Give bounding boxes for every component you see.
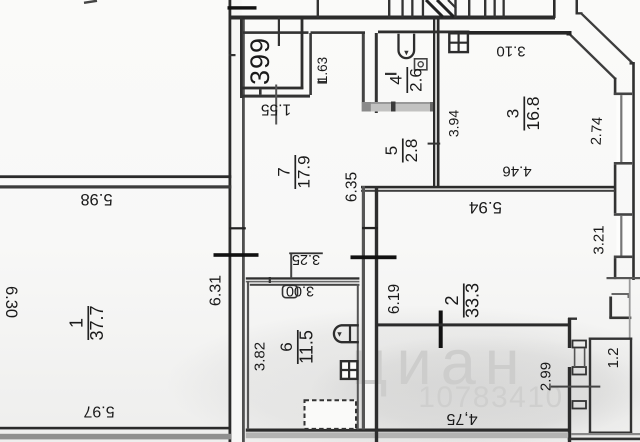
wall step y318 at x568 bbox=[568, 318, 577, 320]
399 box right edge line a bbox=[301, 19, 304, 89]
door frame line b bbox=[584, 348, 586, 367]
window W1 pane line bbox=[620, 95, 622, 162]
svg-text:6.19: 6.19 bbox=[386, 284, 403, 314]
door bold bar corridor-room2 bbox=[351, 255, 397, 259]
399 box vertical tick bbox=[278, 17, 280, 46]
room6 top wall inner bbox=[250, 284, 360, 286]
svg-text:6.35: 6.35 bbox=[344, 172, 361, 202]
svg-text:399: 399 bbox=[245, 37, 275, 85]
underline 3.25 bbox=[289, 252, 323, 254]
svg-text:4,75: 4,75 bbox=[446, 410, 477, 427]
room label 1/37.7 bbox=[67, 305, 108, 340]
room6 inner right wall bbox=[357, 284, 359, 429]
399 box left edge bbox=[240, 17, 243, 98]
room label 5/2.8 bbox=[382, 139, 421, 163]
wall right inner segment a bbox=[614, 78, 617, 96]
balcony 1.2 box left wall bbox=[589, 338, 591, 435]
tick on room6 wall bbox=[269, 277, 271, 283]
wall x568 upper bbox=[568, 318, 571, 348]
left divider wall top line bbox=[0, 175, 231, 178]
svg-text:7: 7 bbox=[275, 167, 294, 176]
dash 1.63 bbox=[318, 81, 328, 84]
balcony 1.2 box bottom wall bbox=[589, 432, 632, 434]
svg-text:3.10: 3.10 bbox=[496, 43, 525, 60]
svg-text:37.7: 37.7 bbox=[87, 305, 107, 340]
stair stub wall 3 bbox=[401, 0, 403, 18]
room6 inner left wall bbox=[247, 281, 249, 429]
wall right outer bbox=[632, 62, 635, 280]
svg-text:3.21: 3.21 bbox=[591, 225, 608, 254]
toilet room6 body bbox=[334, 325, 359, 342]
stair stub wall 10 bbox=[503, 0, 505, 18]
svg-text:3.94: 3.94 bbox=[446, 110, 462, 137]
stair stub wall 7 bbox=[468, 0, 470, 18]
corridor top line bbox=[311, 31, 366, 34]
toilet room6 tank line bbox=[349, 325, 351, 342]
stove icon cross h bbox=[341, 369, 358, 371]
chamfer low step bbox=[630, 62, 635, 64]
leader 2.99 bbox=[551, 386, 601, 388]
stair hatch stroke 1 bbox=[426, 0, 443, 17]
leader 3.25 bbox=[290, 253, 292, 278]
chamfer inner start block bbox=[567, 31, 572, 36]
wall left cavity line B bbox=[242, 17, 245, 442]
399 box bottom tick bbox=[259, 89, 262, 94]
stair stub wall 5 bbox=[422, 0, 424, 18]
window W2 bottom border bbox=[614, 256, 632, 259]
svg-text:4: 4 bbox=[387, 75, 406, 84]
svg-text:1.55: 1.55 bbox=[261, 101, 291, 118]
corridor wall x375 upper bbox=[375, 33, 378, 113]
balcony 1.2 box right wall bbox=[630, 338, 632, 435]
399 box bottom line a bbox=[240, 87, 303, 90]
stair stub wall 8 bbox=[484, 0, 486, 18]
dim tick mid cavity bbox=[362, 227, 378, 229]
gray wall band rooms 4-5 bbox=[362, 102, 435, 112]
svg-text:1.63: 1.63 bbox=[315, 57, 330, 83]
door jamb low step bbox=[573, 401, 587, 409]
wall x568 lower bbox=[568, 367, 571, 442]
neighbour line y277 bbox=[607, 277, 640, 279]
toilet room4 bowl bbox=[399, 34, 415, 58]
svg-text:2.6: 2.6 bbox=[407, 68, 426, 92]
svg-text:3.25: 3.25 bbox=[292, 251, 320, 267]
wall x433 line a bbox=[433, 19, 435, 188]
399 box bottom line b bbox=[240, 95, 310, 98]
svg-text:5.98: 5.98 bbox=[80, 190, 112, 208]
svg-text:6.31: 6.31 bbox=[208, 275, 225, 306]
svg-text:1.2: 1.2 bbox=[605, 348, 622, 369]
wall 5.94 line a bbox=[361, 186, 615, 189]
dim tick left cavity bbox=[229, 227, 246, 229]
bottom wall right section bbox=[246, 429, 568, 432]
window W1 bottom border bbox=[614, 162, 632, 165]
door bold bar room1-corridor bbox=[214, 253, 259, 257]
bottom strip right of 568 gray bbox=[571, 433, 640, 435]
bottom wall left section top line bbox=[0, 427, 231, 430]
stove icon room6 bbox=[341, 361, 358, 379]
stair stub wall 9 bbox=[494, 0, 496, 18]
corridor wall x375 lower bbox=[375, 186, 378, 442]
svg-text:2: 2 bbox=[442, 295, 462, 305]
svg-text:33.3: 33.3 bbox=[463, 283, 483, 318]
stair stub wall 2 bbox=[388, 0, 390, 18]
svg-text:6.30: 6.30 bbox=[2, 286, 20, 318]
gray wall band top edge bbox=[362, 102, 435, 104]
svg-text:5.94: 5.94 bbox=[469, 198, 502, 217]
wall y317 bbox=[609, 317, 631, 320]
wall stub x609 bbox=[609, 297, 612, 319]
svg-text:11.5: 11.5 bbox=[297, 330, 317, 364]
svg-text:16.8: 16.8 bbox=[523, 96, 543, 130]
neighbour tick x628 bbox=[628, 293, 630, 298]
tick below toilet bbox=[385, 73, 397, 75]
svg-text:6: 6 bbox=[277, 342, 296, 351]
vent shaft icon room3 bbox=[449, 33, 468, 52]
window W1 white fill bbox=[616, 93, 632, 166]
wall 5.94 line b bbox=[361, 190, 615, 192]
mini sink room4 bbox=[415, 59, 427, 70]
door bold bar vertical room2 bbox=[439, 311, 443, 349]
door jamb upper bbox=[573, 341, 587, 348]
door frame line a bbox=[574, 348, 576, 367]
room label 2/33.3 bbox=[442, 283, 483, 318]
stair stub wall 1 bbox=[317, 0, 319, 18]
wall right inner segment c bbox=[614, 258, 617, 279]
room2 bottom wall bbox=[377, 323, 569, 326]
wall top exterior bbox=[229, 16, 556, 20]
cavity wall white strip mid bbox=[365, 186, 375, 429]
dashed appliance rect room6 bbox=[305, 400, 357, 429]
svg-text:2.99: 2.99 bbox=[538, 362, 555, 391]
thin wall x629 bbox=[629, 279, 631, 338]
leader 1.55 bbox=[275, 85, 277, 125]
svg-text:5.97: 5.97 bbox=[83, 403, 114, 420]
cavity wall white strip left bbox=[232, 0, 242, 442]
wall x433 line b bbox=[437, 19, 440, 188]
stair stub wall 6 bbox=[454, 0, 456, 18]
window W1 top border bbox=[614, 93, 632, 96]
svg-text:2.8: 2.8 bbox=[402, 139, 421, 163]
toilet room6 dot bbox=[337, 332, 341, 337]
small tick left wall y55 bbox=[229, 54, 236, 56]
room4 top wall bbox=[378, 31, 470, 34]
room6 top wall middle bbox=[246, 281, 360, 283]
svg-text:3: 3 bbox=[504, 109, 523, 118]
door bold bar top entrance bbox=[228, 6, 257, 9]
window W2 top border bbox=[614, 213, 632, 216]
gray wall band left dark end bbox=[362, 102, 371, 112]
window W2 white fill bbox=[616, 213, 632, 255]
svg-text:4.46: 4.46 bbox=[502, 163, 531, 180]
top-left small mark bbox=[84, 1, 97, 3]
chamfer wall outer diagonal bbox=[581, 13, 634, 64]
stair hatch stroke 2 bbox=[437, 0, 454, 17]
corner step wall top right bbox=[576, 0, 579, 14]
wall left cavity line A bbox=[229, 0, 232, 442]
room3 top wall bbox=[455, 31, 570, 35]
vent shaft icon cross h bbox=[449, 42, 468, 44]
window W2 pane line bbox=[620, 216, 622, 256]
gray wall band dark blob bbox=[391, 102, 396, 112]
room label 6/11.5 bbox=[277, 330, 317, 364]
balcony 1.2 box top wall bbox=[589, 338, 632, 340]
svg-text:2.74: 2.74 bbox=[589, 117, 606, 146]
bottom wall left gray band bbox=[0, 434, 231, 440]
gray wall band right smudge bbox=[430, 102, 435, 112]
svg-text:5: 5 bbox=[382, 146, 401, 155]
399 box right edge line b bbox=[309, 33, 312, 95]
svg-text:17.9: 17.9 bbox=[295, 155, 314, 188]
toilet room4 dot bbox=[404, 51, 408, 56]
watermark gray zone bbox=[165, 305, 640, 442]
svg-text:3.82: 3.82 bbox=[252, 342, 269, 371]
vent shaft icon cross v bbox=[458, 33, 460, 52]
room label 4/2.6 bbox=[387, 67, 426, 93]
neighbour line y293 bbox=[612, 293, 630, 295]
wall right inner segment b bbox=[614, 165, 617, 214]
corridor wall x362 lower bbox=[362, 186, 365, 429]
bottom strip right dark line bbox=[568, 438, 640, 441]
door jamb lower bbox=[573, 367, 587, 375]
stove icon cross v bbox=[348, 361, 350, 379]
room label 7/17.9 bbox=[275, 155, 314, 189]
corridor wall x362 upper bbox=[362, 33, 365, 112]
room6 top wall outer bbox=[246, 277, 360, 279]
dim tick 3.94 bbox=[428, 143, 441, 145]
room label 3/16.8 bbox=[504, 96, 544, 130]
stair stub wall 4 bbox=[411, 0, 413, 18]
mini sink circle bbox=[418, 62, 423, 67]
inner top line 399 box bbox=[243, 31, 309, 34]
stairwell corner wall bbox=[553, 0, 556, 18]
svg-text:1: 1 bbox=[67, 318, 87, 328]
corner step horizontal bbox=[576, 12, 583, 14]
bottom wall right gray band bbox=[246, 432, 568, 438]
chamfer wall inner diagonal bbox=[570, 34, 617, 80]
left divider wall bottom line bbox=[0, 185, 231, 188]
box around 00 bbox=[283, 285, 298, 297]
stair hatch stroke 3 bbox=[448, 0, 456, 8]
